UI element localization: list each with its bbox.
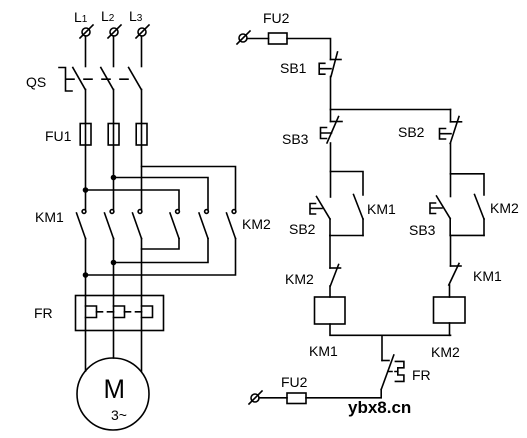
wire QS to FU1 pole 2 bbox=[113, 90, 115, 124]
motor M circle bbox=[77, 358, 149, 430]
svg-text:FU2: FU2 bbox=[263, 10, 290, 26]
fuse FU1 pole 3 bbox=[136, 124, 147, 146]
contactor KM1 NC interlock tick bbox=[451, 265, 462, 267]
pushbutton SB2 actuator bbox=[310, 204, 322, 215]
contactor KM1 main contact 2 bbox=[105, 210, 114, 239]
wire KM2 aux bottom bbox=[483, 219, 485, 235]
wire through FR element 1 bbox=[85, 296, 87, 331]
svg-text:KM1: KM1 bbox=[367, 201, 396, 217]
wire branch L1 to KM2 pole1 top bbox=[86, 190, 180, 210]
wire down to SB3 NC bbox=[330, 110, 332, 122]
contactor KM2 main contact 1 bbox=[170, 210, 179, 239]
svg-text:M: M bbox=[104, 374, 126, 404]
wire FR blade bottom bbox=[306, 390, 381, 398]
svg-text:SB1: SB1 bbox=[280, 60, 307, 76]
svg-text:ybx8.cn: ybx8.cn bbox=[348, 398, 411, 417]
node junction wire1 top bbox=[83, 187, 89, 193]
wire to KM1 interlock bbox=[450, 235, 452, 266]
thermal relay FR linkage dash 2-3 bbox=[125, 311, 142, 313]
wire KM1 pole1 down bbox=[85, 239, 87, 296]
wire KM1 pole3 down bbox=[141, 239, 143, 296]
svg-text:QS: QS bbox=[26, 74, 46, 90]
svg-text:KM2: KM2 bbox=[490, 200, 519, 216]
wire KM1 pole2 down bbox=[113, 239, 115, 296]
svg-text:FU1: FU1 bbox=[45, 128, 72, 144]
wire SB2 bottom bbox=[329, 219, 331, 236]
fuse FU1 pole 2 bbox=[108, 124, 119, 146]
svg-text:KM2: KM2 bbox=[431, 344, 460, 360]
wire branch L2 to KM2 pole2 top bbox=[114, 178, 209, 210]
coil KM1 bbox=[315, 297, 346, 324]
thermal relay FR box bbox=[76, 296, 164, 331]
pushbutton SB1 NC blade bbox=[331, 52, 338, 77]
thermal relay FR linkage dash 1-2 bbox=[97, 311, 114, 313]
wire SB1 down bbox=[330, 77, 332, 110]
pushbutton SB3 NC tick bbox=[331, 121, 343, 123]
wire SB3 NO top bbox=[450, 174, 452, 197]
svg-text:FR: FR bbox=[34, 305, 53, 321]
wire split to KM2 aux bbox=[451, 174, 485, 195]
wire FR tap bbox=[381, 335, 383, 360]
svg-text:L1: L1 bbox=[74, 9, 88, 25]
fuse FU2 bottom bbox=[287, 393, 306, 404]
pushbutton SB1 actuator bbox=[319, 63, 331, 74]
switch QS bracket bbox=[59, 68, 72, 92]
wire corner down to SB2 NC bbox=[450, 110, 452, 122]
node junction wire2 bottom bbox=[111, 260, 117, 266]
wire L1 to QS bbox=[85, 36, 87, 67]
wire through FR element 2 bbox=[113, 296, 115, 331]
terminal control bottom bbox=[249, 391, 262, 404]
wire to KM2 coil bbox=[449, 285, 451, 297]
wire SB2 top bbox=[330, 172, 332, 198]
wire to KM1 coil bbox=[329, 286, 331, 297]
switch QS pole 2 blade bbox=[101, 68, 114, 90]
pushbutton SB2 NC blade bbox=[450, 117, 459, 144]
wire FR to motor 1 bbox=[85, 331, 87, 372]
pushbutton SB2 NC tick bbox=[451, 121, 462, 123]
pushbutton SB2 NO blade bbox=[317, 197, 331, 220]
terminal L1 bbox=[80, 25, 93, 38]
svg-text:L2: L2 bbox=[101, 8, 115, 24]
contactor KM1 NC interlock blade bbox=[449, 264, 459, 286]
wire KM1 aux bottom bbox=[362, 219, 364, 236]
wire split to KM1 aux bbox=[331, 172, 364, 196]
wire KM2 pole1 bottom to wire3 bbox=[142, 239, 180, 250]
wire to KM2 interlock bbox=[329, 236, 331, 269]
wire merge left branch bbox=[330, 235, 363, 237]
wire FR to motor 2 bbox=[113, 331, 115, 359]
terminal L2 bbox=[108, 25, 121, 38]
thermal contact FR link dash bbox=[388, 371, 398, 373]
wire FR to motor 3 bbox=[141, 331, 143, 372]
wire SB3 down bbox=[330, 143, 332, 172]
thermal relay FR heater 2 bbox=[114, 306, 125, 318]
wire L2 to QS bbox=[113, 36, 115, 67]
svg-text:SB2: SB2 bbox=[289, 221, 316, 237]
node junction wire2 top bbox=[111, 175, 117, 181]
wire through fuse 2 to KM1 contact 2 bbox=[113, 124, 115, 210]
switch QS linkage dashed bbox=[66, 78, 137, 80]
svg-text:KM1: KM1 bbox=[309, 343, 338, 359]
contactor KM2 main contact 2 bbox=[199, 210, 208, 239]
contactor KM1 main contact 1 bbox=[77, 210, 86, 239]
wire L3 to QS bbox=[141, 36, 143, 67]
svg-text:L3: L3 bbox=[129, 8, 143, 24]
terminal L3 bbox=[136, 25, 149, 38]
svg-text:KM2: KM2 bbox=[242, 216, 271, 232]
pushbutton SB3 NC blade bbox=[327, 117, 339, 144]
contactor KM2 aux blade bbox=[475, 195, 485, 220]
wire QS to FU1 pole 1 bbox=[85, 90, 87, 124]
wire merge right branch bbox=[450, 234, 484, 236]
wire through fuse 3 to KM1 contact 3 bbox=[141, 124, 143, 210]
terminal control top bbox=[237, 31, 250, 44]
contactor KM2 NC interlock tick bbox=[330, 267, 341, 269]
wire through fuse 1 to KM1 contact 1 bbox=[85, 124, 87, 210]
svg-text:KM2: KM2 bbox=[285, 271, 314, 287]
contactor KM1 aux blade bbox=[354, 195, 364, 220]
pushbutton SB3 NO blade bbox=[437, 196, 451, 219]
svg-text:FR: FR bbox=[412, 367, 431, 383]
contactor KM1 main contact 3 bbox=[133, 210, 142, 239]
svg-text:SB2: SB2 bbox=[398, 124, 425, 140]
thermal contact FR actuator bbox=[395, 361, 404, 381]
wire branch to right column bbox=[331, 109, 451, 111]
thermal contact FR tick bbox=[382, 360, 389, 362]
svg-text:SB3: SB3 bbox=[282, 131, 309, 147]
thermal relay FR heater 3 bbox=[142, 306, 153, 318]
thermal relay FR heater 1 bbox=[86, 306, 97, 318]
wire branch L3 to KM2 pole3 top bbox=[142, 167, 236, 210]
contactor KM2 main contact 3 bbox=[227, 210, 236, 239]
svg-text:KM1: KM1 bbox=[473, 268, 502, 284]
pushbutton SB2 NC actuator bbox=[440, 129, 452, 140]
wire FU2 to corner bbox=[287, 39, 331, 60]
svg-text:SB3: SB3 bbox=[409, 222, 436, 238]
svg-text:FU2: FU2 bbox=[281, 374, 308, 390]
pushbutton SB3 actuator bbox=[321, 128, 332, 139]
wire FU2 bottom left bbox=[259, 397, 287, 399]
wire terminal to FU2 bbox=[247, 38, 269, 40]
svg-text:3~: 3~ bbox=[111, 407, 127, 423]
fuse FU2 top bbox=[269, 33, 288, 44]
wire KM2 pole3 bottom to wire1 bbox=[86, 239, 236, 276]
wire KM2 pole2 bottom to wire2 bbox=[114, 239, 209, 263]
wire KM1 coil bottom bbox=[330, 324, 451, 335]
wire KM2 coil bottom bbox=[449, 323, 451, 335]
node junction wire1 bottom bbox=[83, 272, 89, 278]
wire SB3 NO bottom bbox=[449, 219, 451, 236]
wire SB2 NC down bbox=[450, 144, 452, 174]
switch QS pole 3 blade bbox=[129, 68, 142, 90]
thermal contact FR blade bbox=[381, 355, 394, 390]
fuse FU1 pole 1 bbox=[80, 124, 91, 146]
switch QS pole 1 blade bbox=[73, 68, 86, 90]
pushbutton SB1 NC tick bbox=[331, 59, 342, 61]
contactor KM2 NC interlock blade bbox=[330, 265, 338, 287]
wire QS to FU1 pole 3 bbox=[141, 90, 143, 124]
coil KM2 bbox=[434, 297, 466, 323]
wire through FR element 3 bbox=[141, 296, 143, 331]
pushbutton SB3 NO actuator bbox=[430, 203, 442, 214]
svg-text:KM1: KM1 bbox=[35, 209, 64, 225]
